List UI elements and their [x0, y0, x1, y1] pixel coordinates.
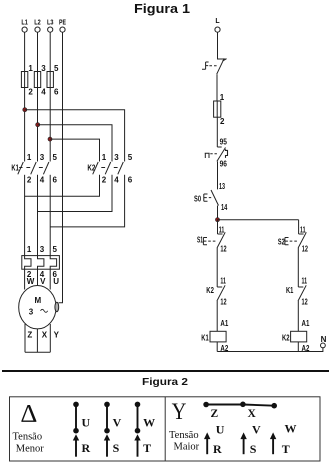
svg-text:2: 2 — [102, 175, 107, 184]
fuse F4 (1-2) — [214, 93, 225, 126]
wire motor X down — [36, 329, 38, 352]
wire tap L2 to K2 pole2 — [38, 125, 112, 162]
svg-text:12: 12 — [302, 298, 309, 307]
svg-text:R: R — [82, 441, 91, 455]
svg-text:Figura 2: Figura 2 — [142, 376, 188, 388]
svg-text:X: X — [248, 408, 257, 420]
svg-text:W: W — [285, 421, 297, 435]
wire switch to fuse — [216, 74, 218, 101]
overload relay FT1 — [22, 245, 60, 286]
wire fuse to thermal contact — [216, 117, 218, 147]
svg-text:1: 1 — [28, 64, 33, 73]
svg-text:S: S — [250, 442, 257, 456]
coil K2 — [282, 331, 307, 342]
svg-text:T: T — [143, 441, 151, 455]
svg-text:K1: K1 — [201, 334, 209, 343]
svg-text:K1: K1 — [286, 286, 294, 295]
svg-text:5: 5 — [54, 64, 59, 73]
wire tap L3 to K2 pole1 — [50, 139, 100, 161]
wire bottom bus to N — [217, 348, 323, 352]
svg-text:6: 6 — [53, 175, 58, 184]
motor M1 (3~) — [19, 286, 56, 329]
wire K1 outputs down to overload — [24, 175, 26, 256]
svg-text:5: 5 — [53, 245, 58, 254]
svg-text:11: 11 — [219, 226, 225, 235]
svg-text:3: 3 — [40, 245, 45, 254]
svg-text:A1: A1 — [220, 319, 228, 328]
svg-text:PE: PE — [59, 20, 66, 27]
svg-text:L2: L2 — [34, 20, 41, 27]
delta column U/R — [73, 402, 79, 457]
contact K1 aux NC (11-12) — [286, 277, 308, 307]
svg-text:K2: K2 — [282, 334, 290, 343]
wire coil K2 to bus — [297, 342, 299, 352]
svg-text:M: M — [34, 296, 41, 305]
wire L2 fuse to K1 — [37, 88, 39, 162]
svg-text:K2: K2 — [206, 286, 214, 295]
svg-text:U: U — [216, 422, 225, 436]
svg-text:Tensão: Tensão — [169, 430, 199, 441]
terminal L — [215, 18, 220, 32]
wire right branch down to S2 — [298, 220, 300, 234]
svg-text:12: 12 — [302, 244, 309, 253]
svg-text:1: 1 — [27, 153, 32, 162]
node tap L3 (junction dot) — [48, 137, 52, 141]
wire S1 to K2 aux — [216, 248, 218, 287]
svg-text:5: 5 — [128, 153, 133, 162]
svg-text:6: 6 — [128, 175, 133, 184]
svg-text:S0: S0 — [194, 194, 201, 203]
svg-text:R: R — [213, 442, 222, 456]
svg-text:W: W — [143, 415, 155, 429]
node tap L1 (junction dot) — [23, 108, 27, 112]
wire thermal to S0 — [217, 162, 219, 190]
wire L2 terminal to fuse — [37, 32, 39, 71]
svg-text:1: 1 — [102, 153, 107, 162]
wire overload to motor V — [37, 269, 39, 285]
svg-text:5: 5 — [53, 153, 58, 162]
wire K2 pole3 output crossover to L3 column — [50, 175, 124, 227]
pushbutton S0 (NO, 13-14) — [194, 182, 228, 212]
svg-text:W: W — [27, 277, 35, 286]
svg-text:11: 11 — [300, 226, 306, 235]
svg-text:13: 13 — [219, 182, 225, 191]
svg-text:U: U — [82, 415, 91, 429]
fuse F2 (3-4) — [34, 64, 46, 97]
wye arrow R/U — [204, 432, 210, 454]
svg-text:2: 2 — [28, 87, 33, 96]
svg-text:11: 11 — [220, 277, 226, 286]
svg-text:Tensão: Tensão — [13, 432, 43, 443]
svg-text:A1: A1 — [302, 319, 310, 328]
wire overload to motor W — [24, 269, 26, 289]
svg-text:S: S — [113, 441, 120, 455]
svg-text:Y: Y — [54, 331, 60, 340]
terminal N — [321, 335, 327, 348]
wire L1 terminal to fuse — [24, 32, 26, 71]
wire K2 aux to coil K1 — [216, 301, 218, 331]
svg-text:L1: L1 — [21, 20, 28, 27]
svg-text:12: 12 — [220, 298, 227, 307]
wire tap L1 to K2 pole3 — [25, 110, 125, 162]
coil K1 — [201, 331, 226, 342]
switch F (disconnect) — [202, 58, 227, 74]
wire S0 to junction — [217, 206, 219, 220]
svg-text:12: 12 — [220, 244, 227, 253]
wire coil K1 to bus — [216, 342, 218, 352]
svg-text:X: X — [42, 331, 48, 340]
wire L3 terminal to fuse — [49, 32, 51, 71]
terminal PE — [59, 20, 66, 33]
svg-text:14: 14 — [221, 203, 228, 212]
wire PE column down to motor frame — [59, 32, 63, 303]
svg-text:1: 1 — [27, 245, 32, 254]
wire junction down to S1 — [217, 220, 219, 234]
svg-text:Figura 1: Figura 1 — [134, 2, 190, 16]
svg-text:95: 95 — [220, 138, 228, 147]
svg-text:3: 3 — [29, 308, 34, 317]
svg-text:L: L — [215, 18, 220, 25]
wire motor Y down — [49, 324, 51, 352]
wye bridge Z-X — [203, 402, 277, 409]
svg-text:V: V — [113, 415, 122, 429]
separator rule — [2, 370, 329, 372]
fuse F3 (5-6) — [47, 64, 59, 97]
svg-text:V: V — [252, 422, 261, 436]
table frame — [10, 397, 321, 461]
wire K1 aux to coil K2 — [297, 301, 299, 331]
pushbutton S1 (NC, 11-12) — [197, 226, 227, 254]
delta column V/S — [104, 402, 110, 457]
svg-text:V: V — [40, 277, 46, 286]
wire L1 fuse to K1 — [24, 88, 26, 162]
wye arrow T/W — [270, 432, 276, 454]
svg-text:U: U — [53, 277, 59, 286]
svg-text:Maior: Maior — [174, 442, 200, 453]
svg-text:4: 4 — [41, 87, 46, 96]
wire K2 pole2 output crossover to L2 column — [38, 175, 113, 212]
svg-text:4: 4 — [114, 175, 119, 184]
svg-text:S1: S1 — [197, 236, 203, 245]
svg-text:Z: Z — [211, 408, 219, 420]
svg-text:6: 6 — [54, 87, 59, 96]
svg-text:1: 1 — [220, 93, 225, 102]
fuse F1 (1-2) — [21, 64, 33, 97]
wye arrow S/V — [240, 432, 246, 454]
svg-text:L3: L3 — [47, 20, 54, 27]
terminal L3 — [47, 20, 54, 33]
wire junction to right branch — [218, 219, 299, 221]
svg-text:3: 3 — [40, 153, 45, 162]
svg-text:S2: S2 — [278, 237, 285, 246]
svg-text:96: 96 — [220, 159, 228, 168]
svg-text:Δ: Δ — [20, 399, 37, 428]
svg-text:4: 4 — [40, 175, 45, 184]
svg-text:11: 11 — [302, 277, 308, 286]
terminal L2 — [34, 20, 41, 33]
contactor K2 main contacts — [87, 153, 132, 184]
svg-text:2: 2 — [220, 117, 225, 126]
svg-text:T: T — [282, 442, 290, 456]
svg-text:3: 3 — [114, 153, 119, 162]
svg-text:2: 2 — [27, 175, 32, 184]
svg-text:3: 3 — [41, 64, 46, 73]
terminal L1 — [21, 20, 28, 33]
svg-text:Y: Y — [172, 399, 187, 424]
node junction A — [216, 218, 220, 222]
wire L down to switch — [218, 32, 224, 59]
svg-text:A2: A2 — [302, 344, 310, 353]
svg-text:Menor: Menor — [16, 443, 44, 454]
wire motor Z down — [24, 324, 26, 352]
contact K2 aux NC (11-12) — [206, 277, 227, 307]
thermal overload NC contact FT (95-96) — [205, 138, 228, 169]
svg-text:Z: Z — [27, 331, 32, 340]
contactor K1 main contacts — [11, 153, 57, 184]
pushbutton S2 (NC, 11-12) — [278, 226, 308, 254]
motor frame PE lug — [55, 302, 59, 311]
wire overload to motor U — [49, 269, 51, 289]
wire K2 pole1 output crossover to L1 column — [25, 175, 100, 197]
wire star bridge Z-X-Y — [25, 351, 50, 353]
node tap L2 (junction dot) — [36, 123, 40, 127]
wire L3 fuse to K1 — [49, 88, 51, 162]
svg-text:K1: K1 — [11, 163, 19, 172]
delta column W/T — [134, 402, 140, 457]
wire S2 to K1 aux — [297, 248, 299, 287]
